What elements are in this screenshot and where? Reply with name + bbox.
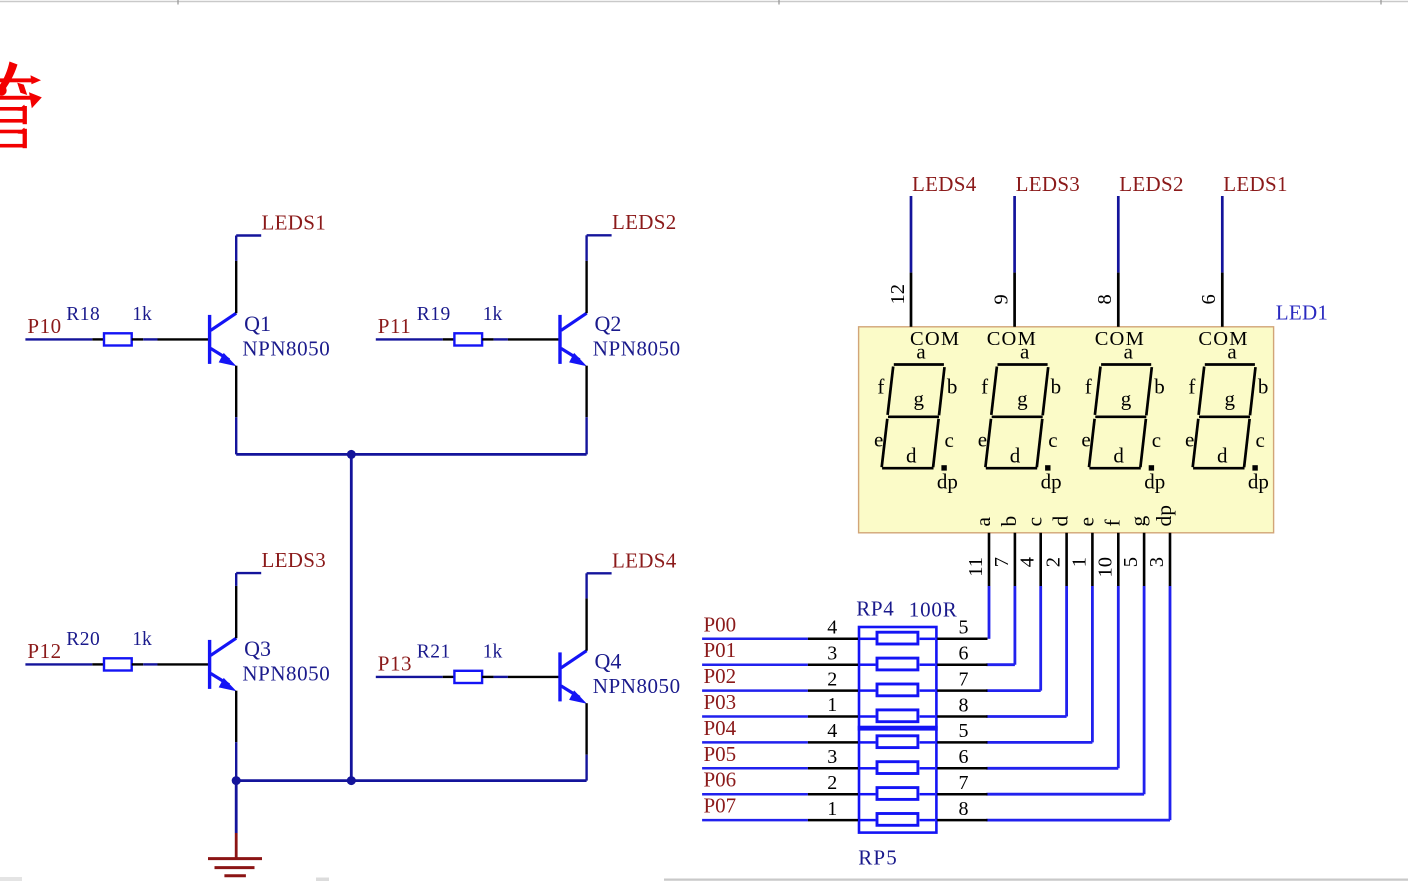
svg-text:c: c — [1023, 517, 1047, 527]
svg-text:8: 8 — [959, 798, 969, 820]
svg-text:4: 4 — [827, 617, 837, 639]
svg-text:5: 5 — [959, 720, 969, 742]
svg-text:2: 2 — [827, 772, 837, 794]
svg-text:P12: P12 — [27, 639, 61, 663]
svg-text:P10: P10 — [27, 314, 61, 338]
svg-text:1k: 1k — [132, 629, 152, 650]
svg-text:R20: R20 — [66, 629, 100, 650]
svg-text:3: 3 — [1146, 557, 1168, 567]
svg-text:COM: COM — [1095, 328, 1145, 350]
svg-text:NPN8050: NPN8050 — [593, 336, 681, 360]
svg-text:7: 7 — [991, 557, 1013, 567]
svg-text:P05: P05 — [704, 742, 737, 766]
svg-text:RP4: RP4 — [856, 597, 894, 621]
svg-text:P11: P11 — [378, 314, 411, 338]
svg-text:100R: 100R — [909, 597, 958, 621]
svg-text:8: 8 — [959, 694, 969, 716]
svg-text:P02: P02 — [704, 664, 737, 688]
svg-text:2: 2 — [827, 668, 837, 690]
svg-text:LEDS2: LEDS2 — [612, 210, 677, 234]
svg-text:LEDS1: LEDS1 — [262, 210, 327, 234]
svg-text:5: 5 — [959, 617, 969, 639]
svg-text:NPN8050: NPN8050 — [242, 661, 330, 685]
svg-text:COM: COM — [1198, 328, 1248, 350]
svg-text:g: g — [1126, 516, 1150, 527]
svg-text:NPN8050: NPN8050 — [593, 674, 681, 698]
svg-text:NPN8050: NPN8050 — [242, 336, 330, 360]
svg-text:LEDS2: LEDS2 — [1119, 172, 1184, 196]
svg-text:9: 9 — [990, 294, 1012, 304]
svg-text:R18: R18 — [66, 304, 100, 325]
svg-text:b: b — [997, 516, 1021, 527]
svg-text:Q1: Q1 — [244, 311, 271, 336]
svg-text:12: 12 — [887, 284, 909, 305]
svg-text:P00: P00 — [704, 612, 737, 636]
svg-text:R21: R21 — [417, 641, 451, 662]
svg-text:COM: COM — [987, 328, 1037, 350]
svg-text:LEDS1: LEDS1 — [1223, 172, 1288, 196]
svg-text:Q2: Q2 — [595, 311, 622, 336]
svg-text:P13: P13 — [378, 652, 412, 676]
svg-text:1: 1 — [827, 798, 837, 820]
svg-text:LEDS3: LEDS3 — [262, 548, 327, 572]
svg-text:P04: P04 — [704, 716, 737, 740]
svg-text:1: 1 — [827, 694, 837, 716]
svg-text:Q3: Q3 — [244, 636, 271, 661]
svg-text:6: 6 — [959, 643, 969, 665]
svg-text:1k: 1k — [483, 304, 503, 325]
svg-text:3: 3 — [827, 642, 837, 664]
svg-text:4: 4 — [1017, 557, 1039, 567]
svg-text:P07: P07 — [704, 794, 737, 818]
svg-text:LED1: LED1 — [1276, 301, 1329, 325]
svg-text:7: 7 — [959, 772, 969, 794]
svg-text:P01: P01 — [704, 638, 737, 662]
svg-text:6: 6 — [959, 746, 969, 768]
svg-text:2: 2 — [1043, 557, 1065, 567]
svg-text:5: 5 — [1120, 557, 1142, 567]
svg-text:LEDS4: LEDS4 — [612, 548, 677, 572]
svg-text:a: a — [971, 517, 995, 527]
svg-text:1k: 1k — [132, 304, 152, 325]
svg-text:P06: P06 — [704, 768, 737, 792]
svg-text:7: 7 — [959, 668, 969, 690]
svg-text:1: 1 — [1068, 557, 1090, 567]
svg-text:P03: P03 — [704, 690, 737, 714]
svg-text:3: 3 — [827, 746, 837, 768]
svg-text:RP5: RP5 — [858, 846, 898, 870]
svg-text:10: 10 — [1094, 557, 1116, 578]
svg-text:e: e — [1074, 517, 1098, 527]
svg-text:6: 6 — [1198, 294, 1220, 304]
svg-text:4: 4 — [827, 720, 837, 742]
svg-text:1k: 1k — [483, 641, 503, 662]
svg-text:LEDS4: LEDS4 — [912, 172, 977, 196]
svg-text:f: f — [1100, 519, 1124, 527]
svg-text:dp: dp — [1152, 505, 1176, 527]
svg-text:Q4: Q4 — [595, 648, 622, 673]
svg-text:8: 8 — [1094, 294, 1116, 304]
svg-text:LEDS3: LEDS3 — [1016, 172, 1081, 196]
svg-text:11: 11 — [965, 557, 987, 577]
svg-text:R19: R19 — [417, 304, 451, 325]
svg-text:d: d — [1049, 516, 1073, 527]
